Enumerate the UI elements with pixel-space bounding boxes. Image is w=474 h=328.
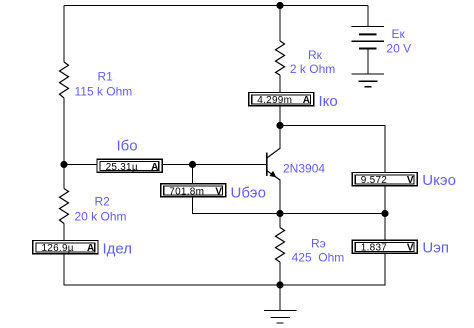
wire Iдел to bottom rail: [64, 254, 280, 285]
wire battery top lead: [367, 6, 369, 27]
wire collector to Uкэо: [280, 126, 385, 172]
wire emitter node to Uэп: [384, 214, 386, 240]
resistor R1: [60, 62, 133, 98]
svg-text:V: V: [407, 243, 414, 254]
svg-text:V: V: [407, 175, 414, 186]
resistor Rк: [276, 41, 336, 76]
node base divider junction: [60, 161, 67, 168]
transistor Q1 2N3904: [267, 148, 326, 180]
wire base right: [163, 164, 267, 166]
voltmeter Uбэо: [161, 184, 266, 202]
svg-text:1.837: 1.837: [361, 243, 387, 254]
ground battery: [352, 74, 385, 87]
wire R2 to Iдел: [63, 224, 65, 240]
svg-text:25.31µ: 25.31µ: [106, 162, 138, 173]
wire emitter rail right: [280, 213, 385, 215]
svg-text:701.8m: 701.8m: [169, 186, 204, 197]
svg-text:Uэп: Uэп: [422, 240, 449, 257]
wire left rail mid: [63, 98, 65, 165]
svg-text:A: A: [151, 162, 158, 173]
svg-text:R2: R2: [95, 195, 111, 209]
wire Rэ top lead: [279, 214, 281, 228]
wire Uбэо top lead: [192, 165, 194, 184]
svg-text:A: A: [303, 95, 310, 106]
wire Rк to Iко: [279, 75, 281, 92]
ammeter Iбо: [97, 137, 162, 172]
svg-text:Rк: Rк: [308, 48, 323, 62]
svg-text:20 V: 20 V: [386, 41, 411, 55]
ground main: [264, 285, 297, 323]
svg-text:R1: R1: [98, 70, 114, 84]
svg-text:2 k Ohm: 2 k Ohm: [290, 62, 335, 76]
wire emitter down: [279, 179, 281, 213]
svg-text:9.572: 9.572: [361, 175, 387, 186]
ammeter Iдел: [33, 240, 132, 257]
svg-text:Ек: Ек: [392, 27, 406, 41]
svg-text:425 Ohm: 425 Ohm: [292, 251, 345, 265]
node top rail junction: [276, 2, 283, 9]
node emitter: [276, 210, 283, 217]
node bottom rail junction: [276, 281, 283, 288]
wire collector node to transistor: [279, 126, 281, 149]
resistor R2: [60, 189, 127, 224]
battery Ек: [352, 27, 412, 56]
svg-text:2N3904: 2N3904: [283, 161, 325, 175]
resistor Rэ: [276, 228, 345, 265]
svg-text:A: A: [87, 243, 94, 254]
svg-text:Rэ: Rэ: [311, 237, 326, 251]
node base voltmeter tap: [189, 161, 196, 168]
wire Uкэо to emitter node: [384, 186, 386, 213]
svg-text:4.299m: 4.299m: [257, 95, 292, 106]
wire Uбэо bottom lead to emitter: [193, 198, 281, 214]
voltmeter Uэп: [352, 240, 449, 257]
wire left rail below base node: [63, 165, 65, 189]
ammeter Iко: [249, 93, 338, 111]
svg-text:Ідел: Ідел: [103, 240, 133, 257]
wire Iко to collector node: [279, 106, 281, 125]
wire battery to ground: [367, 49, 369, 74]
wire left rail upper: [63, 6, 65, 63]
wire Rэ to bottom rail: [279, 262, 281, 285]
wire Uэп to bottom rail: [280, 254, 385, 285]
svg-text:20 k Ohm: 20 k Ohm: [75, 209, 127, 223]
node emitter voltmeter junction: [381, 210, 388, 217]
svg-text:V: V: [215, 186, 222, 197]
voltmeter Uкэо: [352, 172, 456, 189]
svg-text:Iбо: Iбо: [117, 137, 138, 154]
wire collector rail top: [279, 6, 281, 42]
wire base left: [64, 164, 97, 166]
svg-text:126.9µ: 126.9µ: [42, 243, 74, 254]
svg-text:Iко: Iко: [319, 93, 338, 110]
svg-text:Uбэо: Uбэо: [231, 184, 266, 201]
wire top rail: [64, 5, 368, 7]
node collector: [276, 122, 283, 129]
svg-text:Uкэо: Uкэо: [422, 172, 456, 189]
svg-text:115 k Ohm: 115 k Ohm: [75, 84, 133, 98]
